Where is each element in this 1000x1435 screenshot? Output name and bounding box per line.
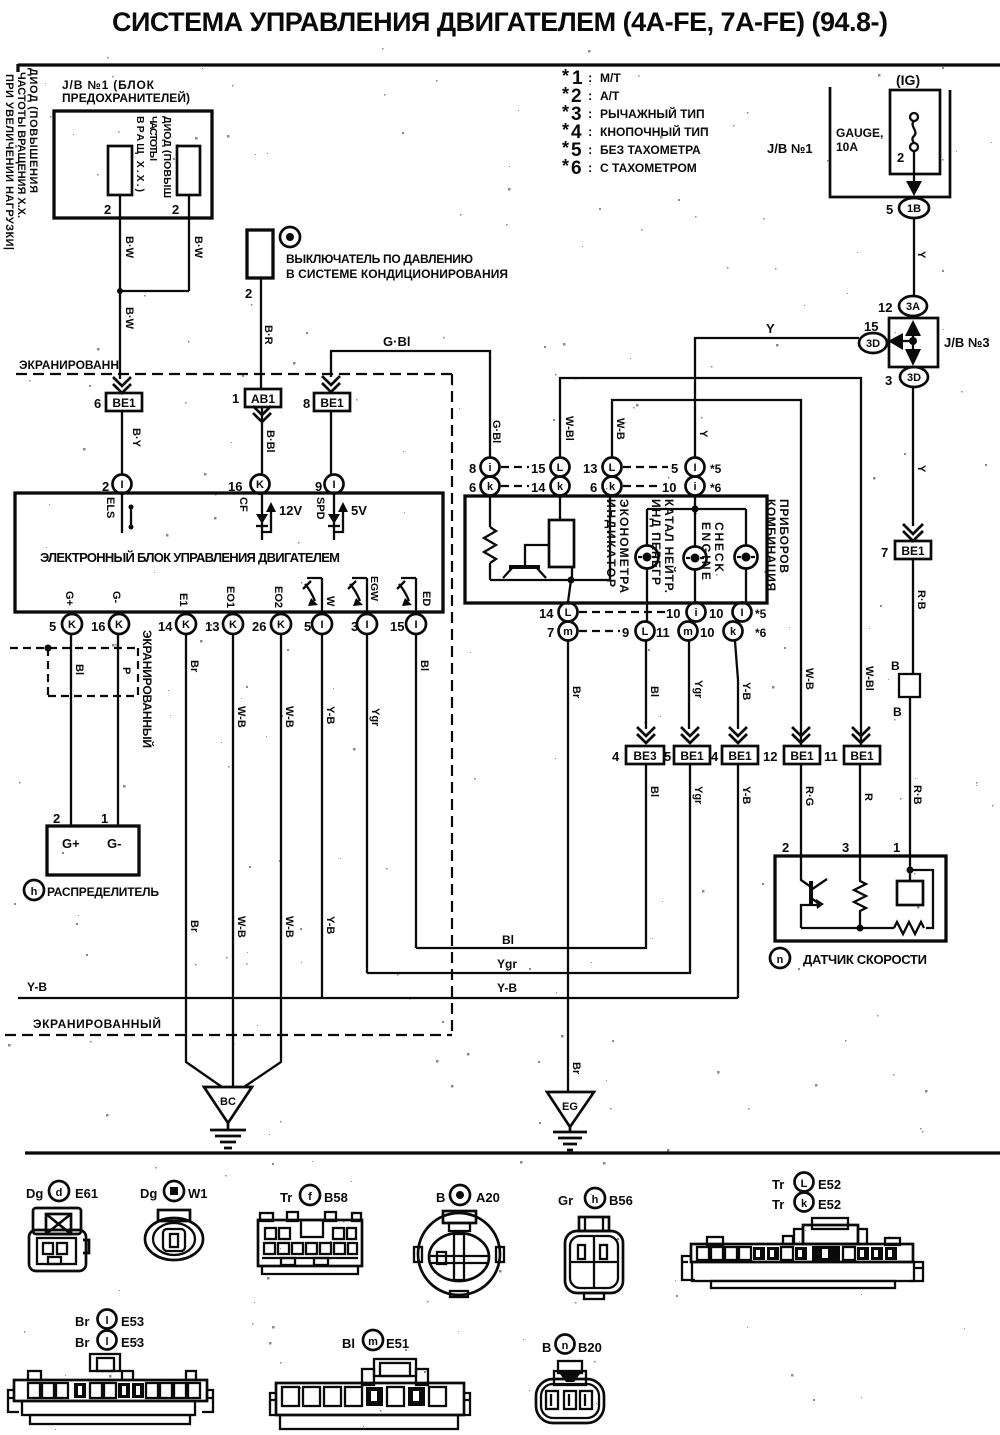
svg-text:А/Т: А/Т — [600, 89, 620, 103]
svg-text:2: 2 — [897, 150, 904, 165]
connector E51 body — [270, 1359, 470, 1429]
circled n speed sensor — [770, 948, 790, 968]
svg-text:BE1: BE1 — [680, 749, 704, 763]
wire B-W from D2 — [120, 195, 189, 291]
node dot sensor rail — [857, 925, 864, 932]
J/B No3 internal arrows — [912, 322, 914, 362]
svg-text:6: 6 — [469, 480, 476, 495]
svg-text:BE1: BE1 — [850, 749, 874, 763]
wire Bl from ECU 15I down — [415, 634, 417, 948]
svg-text:14: 14 — [531, 480, 546, 495]
svg-text::: : — [588, 106, 592, 121]
svg-text:P: P — [120, 667, 132, 674]
svg-text:B58: B58 — [324, 1190, 348, 1205]
lamp catalyst overheat — [684, 547, 707, 570]
svg-text:E52: E52 — [818, 1177, 841, 1192]
wire W-B from ECU 13K down — [232, 634, 234, 1087]
svg-text:ELS: ELS — [104, 497, 116, 518]
svg-text:I: I — [332, 479, 335, 491]
wire P to distributor — [117, 634, 119, 826]
svg-text:B·W: B·W — [123, 307, 135, 330]
svg-text:М/Т: М/Т — [600, 71, 621, 85]
svg-text:РАСПРЕДЕЛИТЕЛЬ: РАСПРЕДЕЛИТЕЛЬ — [47, 885, 159, 899]
svg-text:B: B — [891, 659, 900, 673]
legend *3 lever type — [562, 102, 705, 125]
svg-text:BE1: BE1 — [728, 749, 752, 763]
svg-text:m: m — [563, 626, 573, 638]
svg-text:J/B №3: J/B №3 — [944, 335, 990, 350]
shield dashed box top edge — [16, 373, 452, 375]
svg-text:5V: 5V — [351, 503, 367, 518]
svg-text:I: I — [414, 619, 417, 631]
svg-text:i: i — [694, 607, 697, 619]
connector B56 body — [565, 1217, 623, 1299]
svg-text:W-B: W-B — [614, 418, 626, 440]
wire Ygr to 5BE1 — [688, 641, 690, 729]
svg-text:5: 5 — [671, 461, 678, 476]
svg-text:k: k — [609, 481, 616, 493]
svg-text:ВЫКЛЮЧАТЕЛЬ ПО ДАВЛЕНИЮ: ВЫКЛЮЧАТЕЛЬ ПО ДАВЛЕНИЮ — [286, 252, 473, 266]
svg-text:ЭЛЕКТРОННЫЙ БЛОК УПРАВЛЕНИЯ ДВ: ЭЛЕКТРОННЫЙ БЛОК УПРАВЛЕНИЯ ДВИГАТЕЛЕМ — [40, 550, 340, 565]
fuse element symbol — [910, 113, 918, 121]
svg-text:m: m — [683, 626, 693, 638]
wire Bl below BE3 — [416, 764, 646, 948]
driver glyph ED — [397, 578, 416, 612]
svg-text:Y: Y — [915, 251, 927, 259]
dashed link — [623, 466, 668, 468]
node dot — [568, 577, 575, 584]
svg-text:m: m — [368, 1336, 378, 1348]
svg-text:E52: E52 — [818, 1197, 841, 1212]
bottom separator line — [25, 1151, 1000, 1154]
lamp rail from pin 10i — [647, 496, 746, 546]
wire B-Bl — [261, 407, 263, 475]
svg-text:ЭКРАНИРОВАНН: ЭКРАНИРОВАНН — [19, 358, 119, 372]
svg-text::: : — [588, 142, 592, 157]
dashed link — [579, 611, 665, 613]
svg-text:Bl: Bl — [73, 664, 85, 675]
ground BC symbol — [210, 1123, 246, 1148]
svg-text:13: 13 — [205, 619, 219, 634]
svg-text:15: 15 — [390, 619, 404, 634]
svg-text:ЭКРАНИРОВАННЫЙ: ЭКРАНИРОВАННЫЙ — [33, 1016, 161, 1031]
wire W-BI from pin 15L up and right — [560, 378, 861, 745]
connector E52 body — [682, 1218, 923, 1288]
svg-text:5: 5 — [304, 619, 311, 634]
connector 15(3D) — [859, 333, 887, 353]
svg-text:J/B №1 (БЛОК: J/B №1 (БЛОК — [62, 78, 155, 92]
svg-text:Y-B: Y-B — [27, 980, 47, 994]
svg-text:12: 12 — [763, 749, 777, 764]
ELS wire and switch contact — [121, 494, 123, 533]
tachometer coil rect — [559, 496, 561, 520]
svg-text:ИНД ПЕРЕГР: ИНД ПЕРЕГР — [649, 499, 663, 585]
svg-text:h: h — [31, 886, 38, 898]
svg-text:8: 8 — [469, 461, 476, 476]
svg-text:Y-B: Y-B — [740, 786, 752, 804]
wire Bl to distributor — [70, 634, 72, 826]
svg-text:ЭКОНОМЕТРА: ЭКОНОМЕТРА — [617, 499, 631, 593]
svg-text:Y: Y — [766, 321, 775, 336]
svg-text:A20: A20 — [476, 1190, 500, 1205]
connector A20 body — [414, 1211, 504, 1297]
wire G-Bl to pin 9 — [330, 411, 332, 475]
svg-text:10: 10 — [662, 480, 676, 495]
svg-text:БЕЗ ТАХОМЕТРА: БЕЗ ТАХОМЕТРА — [600, 143, 701, 157]
driver glyph W — [303, 578, 322, 612]
svg-text:EO2: EO2 — [272, 586, 284, 608]
circled letter e (pressure switch) — [280, 227, 300, 247]
svg-text:W1: W1 — [188, 1186, 208, 1201]
svg-text:G-: G- — [110, 591, 122, 604]
svg-text:d: d — [56, 1187, 63, 1199]
svg-text:L: L — [609, 462, 616, 474]
wire Y horizontal from 3D to instrument panel — [695, 338, 859, 458]
svg-text:ЭКРАНИРОВАННЫЙ: ЭКРАНИРОВАННЫЙ — [140, 630, 155, 748]
svg-text:Ygr: Ygr — [497, 957, 517, 971]
svg-text:Y: Y — [915, 465, 927, 473]
junction block J/B No3 box — [889, 318, 938, 367]
svg-text:*: * — [562, 138, 569, 158]
lamp econometer indicator — [636, 546, 659, 569]
junction connector B box — [899, 674, 920, 697]
ground EG symbol — [553, 1127, 587, 1150]
svg-text:16: 16 — [91, 619, 105, 634]
svg-text:n: n — [562, 1340, 569, 1352]
svg-text:5: 5 — [49, 619, 56, 634]
svg-text:E53: E53 — [121, 1335, 144, 1350]
svg-text:W-Bl: W-Bl — [563, 416, 575, 441]
wire Y from 3D down to 7BE1 — [912, 387, 914, 526]
svg-text:ДАТЧИК СКОРОСТИ: ДАТЧИК СКОРОСТИ — [803, 952, 927, 967]
shield chevron on G-Bl wire — [322, 376, 340, 392]
connector E53 body — [8, 1354, 213, 1424]
svg-text:1: 1 — [232, 391, 239, 406]
svg-text:W-Bl: W-Bl — [863, 666, 875, 691]
wire B-Y — [121, 411, 123, 475]
svg-text::: : — [588, 160, 592, 175]
svg-text:G·Bl: G·Bl — [383, 334, 410, 349]
svg-text:L: L — [642, 626, 649, 638]
svg-text:8: 8 — [303, 396, 310, 411]
svg-text:3: 3 — [885, 373, 892, 388]
svg-text:AB1: AB1 — [251, 392, 275, 406]
wire R to sensor pin 3 — [859, 764, 861, 856]
svg-text:*5: *5 — [710, 462, 722, 476]
svg-text:1B: 1B — [907, 203, 921, 215]
svg-text:Tr: Tr — [772, 1197, 784, 1212]
svg-text::: : — [588, 124, 592, 139]
svg-text:BE1: BE1 — [112, 396, 136, 410]
svg-text:10A: 10A — [836, 140, 858, 154]
dashed link — [579, 630, 620, 632]
svg-text:R·B: R·B — [915, 590, 927, 610]
svg-text:*: * — [562, 156, 569, 176]
svg-text:Bl: Bl — [648, 786, 660, 797]
svg-text:2: 2 — [102, 479, 109, 494]
svg-text:E51: E51 — [386, 1336, 409, 1351]
svg-text:Tr: Tr — [772, 1177, 784, 1192]
wire B-W from D1 — [119, 195, 121, 291]
sensor bottom rail — [801, 927, 894, 929]
svg-text:7: 7 — [881, 545, 888, 560]
svg-text:С ТАХОМЕТРОМ: С ТАХОМЕТРОМ — [600, 161, 697, 175]
svg-text:B20: B20 — [578, 1340, 602, 1355]
svg-text:K: K — [68, 619, 76, 631]
svg-text:G+: G+ — [63, 591, 75, 606]
svg-text:10: 10 — [709, 606, 723, 621]
connector W1 body — [145, 1210, 203, 1260]
svg-text:GAUGE,: GAUGE, — [836, 126, 883, 140]
svg-text:B·R: B·R — [262, 325, 274, 345]
svg-text:L: L — [801, 1178, 808, 1190]
svg-text:ДИОД (ПОВЫШ: ДИОД (ПОВЫШ — [161, 116, 173, 198]
ECU box — [15, 493, 443, 612]
svg-text:h: h — [592, 1194, 599, 1206]
svg-text:Br: Br — [75, 1335, 89, 1350]
svg-text:3D: 3D — [866, 338, 880, 350]
svg-text:B·Bl: B·Bl — [264, 430, 276, 453]
shield dashed box right edge — [451, 374, 453, 1035]
wire Y-B from ECU 5I down — [321, 634, 323, 998]
svg-text:L: L — [557, 462, 564, 474]
svg-text:I: I — [693, 462, 696, 474]
svg-text:k: k — [730, 626, 737, 638]
svg-text:*: * — [562, 66, 569, 86]
svg-text:BE1: BE1 — [901, 544, 925, 558]
CF wire diode and 12V arrow — [262, 494, 271, 540]
svg-text:Y-B: Y-B — [324, 916, 336, 934]
svg-text:(IG): (IG) — [896, 72, 920, 88]
shield chevron Y-B — [729, 727, 747, 743]
connector B58 body — [258, 1212, 362, 1274]
svg-text:B56: B56 — [609, 1193, 633, 1208]
svg-text:ДИОД (ПОВЫШЕНИЯ: ДИОД (ПОВЫШЕНИЯ — [27, 68, 39, 193]
svg-text:B·Y: B·Y — [130, 428, 142, 448]
svg-text:*: * — [562, 102, 569, 122]
node junction B-W merge — [117, 288, 123, 294]
svg-text:3A: 3A — [906, 301, 920, 313]
svg-text:Gr: Gr — [558, 1193, 573, 1208]
shield chevron Ygr — [681, 727, 699, 743]
wire R-G to sensor pin 2 — [800, 764, 802, 856]
wire Y-B to 4BE1 — [735, 641, 738, 729]
svg-text::: : — [588, 70, 592, 85]
svg-text:6: 6 — [94, 396, 101, 411]
wire R-B to speed sensor pin 1 — [909, 697, 911, 856]
svg-text:7: 7 — [547, 625, 554, 640]
svg-text:k: k — [801, 1198, 808, 1210]
svg-text:Ygr: Ygr — [692, 680, 704, 699]
svg-text:Ygr: Ygr — [369, 708, 381, 727]
wire G-Bl horizontal run — [331, 351, 490, 458]
svg-text:G+: G+ — [62, 836, 80, 851]
svg-text:15: 15 — [531, 461, 545, 476]
top border line — [18, 64, 1000, 72]
svg-text:CF: CF — [237, 497, 249, 512]
svg-text:*5: *5 — [755, 607, 767, 621]
svg-text:Bl: Bl — [342, 1336, 355, 1351]
junction block J/B No1 right bracket — [830, 87, 950, 197]
svg-text:РЫЧАЖНЫЙ ТИП: РЫЧАЖНЫЙ ТИП — [600, 106, 705, 121]
svg-text:*6: *6 — [755, 626, 767, 640]
svg-text:4: 4 — [711, 749, 719, 764]
svg-text:W-B: W-B — [235, 916, 247, 938]
speed sensor box — [775, 856, 946, 941]
svg-text:SPD: SPD — [314, 497, 326, 520]
wire Y-B below 4BE1 joining long net — [737, 764, 739, 998]
svg-text:W-B: W-B — [283, 706, 295, 728]
svg-text:КОМБИНАЦИЯ: КОМБИНАЦИЯ — [764, 499, 778, 591]
shield dashed box around distributor wires — [10, 648, 138, 696]
shield dashed box bottom edge — [5, 1034, 452, 1036]
connector B20 body — [536, 1361, 604, 1423]
wire B-W merged down to 6BE1 — [119, 291, 121, 379]
ground EG triangle — [547, 1092, 594, 1127]
svg-text:W-B: W-B — [803, 668, 815, 690]
svg-text:E53: E53 — [121, 1314, 144, 1329]
svg-text:Br: Br — [75, 1314, 89, 1329]
diode D1 — [108, 146, 132, 195]
svg-text:ЧАСТОТЫ: ЧАСТОТЫ — [147, 116, 159, 161]
svg-text:14: 14 — [539, 606, 554, 621]
svg-text:ПРИ УВЕЛИЧЕНИИ НАГРУЗКИ|: ПРИ УВЕЛИЧЕНИИ НАГРУЗКИ| — [3, 74, 15, 250]
svg-text:B·W: B·W — [123, 236, 135, 259]
svg-text:ПРЕДОХРАНИТЕЛЕЙ): ПРЕДОХРАНИТЕЛЕЙ) — [62, 90, 190, 105]
lamp check engine — [735, 546, 758, 569]
sensor reed switch square — [909, 856, 911, 881]
fuse GAUGE 10A box — [890, 90, 940, 174]
shield chevron Bl — [637, 727, 655, 743]
junction block J/B No1 box — [54, 111, 212, 218]
driver glyph EGW — [348, 578, 367, 612]
svg-text:12: 12 — [878, 300, 892, 315]
wire from fuse with arrow — [913, 151, 915, 182]
svg-text:6: 6 — [571, 158, 582, 179]
svg-text:Bl: Bl — [418, 660, 430, 671]
svg-text:Br: Br — [188, 660, 200, 673]
svg-text:СИСТЕМА УПРАВЛЕНИЯ ДВИГАТЕЛЕМ: СИСТЕМА УПРАВЛЕНИЯ ДВИГАТЕЛЕМ (4A-FE, 7A… — [112, 7, 888, 37]
wire W-B from pin 13L up and right — [612, 400, 801, 745]
svg-text:K: K — [229, 619, 237, 631]
svg-text:13: 13 — [583, 461, 597, 476]
svg-text:i: i — [693, 481, 696, 493]
svg-text:K: K — [182, 619, 190, 631]
dashed link — [623, 485, 660, 487]
svg-text:Dg: Dg — [26, 1186, 43, 1201]
svg-text:J/B №1: J/B №1 — [767, 141, 813, 156]
svg-text:*6: *6 — [710, 481, 722, 495]
wire Ygr from ECU 3I down — [366, 634, 368, 973]
svg-text:B: B — [893, 705, 902, 719]
shield chevron W-BI — [852, 727, 870, 743]
svg-text:9: 9 — [315, 479, 322, 494]
svg-text:G-: G- — [107, 836, 121, 851]
svg-text:*: * — [562, 84, 569, 104]
lamp wires to bottom pins — [568, 569, 746, 621]
connector E61 body — [29, 1208, 89, 1271]
svg-text:14: 14 — [158, 619, 173, 634]
svg-text:Br: Br — [188, 920, 200, 933]
legend *2 A/T — [562, 84, 620, 107]
svg-text:EGW: EGW — [368, 576, 380, 601]
svg-text:Dg: Dg — [140, 1186, 157, 1201]
internal bottom rail — [490, 579, 610, 581]
svg-text:Tr: Tr — [280, 1190, 292, 1205]
legend *1 M/T — [562, 66, 621, 89]
svg-text:10: 10 — [700, 625, 714, 640]
svg-text:КНОПОЧНЫЙ ТИП: КНОПОЧНЫЙ ТИП — [600, 124, 709, 139]
svg-text:11: 11 — [656, 625, 670, 640]
wire R-B to B junction — [912, 559, 914, 674]
svg-text:Br: Br — [570, 1062, 582, 1075]
svg-text:6: 6 — [590, 480, 597, 495]
svg-text:L: L — [565, 607, 572, 619]
shield chevron W-B — [792, 727, 810, 743]
tachometer transistor — [509, 565, 540, 569]
legend *4 button type — [562, 120, 709, 143]
svg-text:E61: E61 — [75, 1186, 98, 1201]
sensor resistor vertical — [854, 856, 866, 928]
svg-text:BE1: BE1 — [790, 749, 814, 763]
legend *6 with tachometer — [562, 156, 697, 179]
svg-text:Bl: Bl — [502, 933, 514, 947]
diode D2 — [177, 146, 200, 195]
svg-text:G·Bl: G·Bl — [490, 420, 502, 443]
circled h distributor — [24, 880, 44, 900]
sensor transistor — [801, 856, 827, 928]
svg-text:K: K — [115, 619, 123, 631]
shield chevron on B-W wire — [113, 377, 131, 393]
A/C pressure switch body — [247, 230, 273, 278]
svg-text:ED: ED — [420, 591, 432, 606]
svg-text:I: I — [320, 619, 323, 631]
svg-text:Bl: Bl — [648, 686, 660, 697]
svg-text:Y: Y — [697, 430, 709, 438]
svg-text:Br: Br — [570, 686, 582, 699]
svg-text:Y-B: Y-B — [324, 706, 336, 724]
svg-text:n: n — [777, 954, 784, 966]
svg-text:2: 2 — [245, 286, 252, 301]
wire Br from ECU 14K down — [186, 634, 222, 1087]
wire B-R — [260, 278, 262, 389]
wire Br to EG ground — [567, 641, 569, 1092]
distributor box — [47, 826, 139, 875]
sensor right loop with resistor — [894, 870, 933, 934]
wire Ygr below 5BE1 — [367, 764, 690, 973]
svg-text::: : — [588, 88, 592, 103]
svg-text:1: 1 — [101, 811, 108, 826]
svg-text:ЧАСТОТЫ ВРАЩЕНИЯ Х.Х.: ЧАСТОТЫ ВРАЩЕНИЯ Х.Х. — [15, 72, 27, 218]
svg-text:K: K — [277, 619, 285, 631]
dashed link — [501, 485, 529, 487]
svg-text:i: i — [488, 462, 491, 474]
svg-text:16: 16 — [228, 479, 242, 494]
dashed link — [501, 466, 529, 468]
svg-text:12V: 12V — [279, 503, 302, 518]
svg-text:Y-B: Y-B — [740, 682, 752, 700]
svg-text:5: 5 — [886, 202, 893, 217]
svg-text:ПРИБОРОВ: ПРИБОРОВ — [777, 499, 791, 573]
svg-text:W: W — [324, 596, 336, 607]
svg-text:EG: EG — [562, 1101, 578, 1113]
svg-text:BE1: BE1 — [320, 396, 344, 410]
svg-text:3D: 3D — [907, 372, 921, 384]
SPD wire diode and 5V arrow — [334, 494, 343, 540]
svg-text:ИНДИКАТОР: ИНДИКАТОР — [604, 499, 618, 587]
svg-text:26: 26 — [252, 619, 266, 634]
svg-text:k: k — [557, 481, 564, 493]
